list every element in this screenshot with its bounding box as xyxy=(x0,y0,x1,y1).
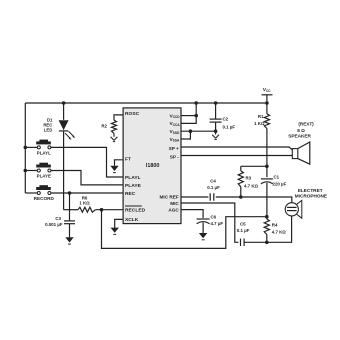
node A bias junction xyxy=(265,165,269,169)
svg-text:VCC: VCC xyxy=(263,87,272,93)
wire SP- xyxy=(181,155,292,157)
svg-text:C1: C1 xyxy=(274,174,280,179)
label pin VSSA xyxy=(170,137,180,143)
node junction RECLED line xyxy=(100,208,104,212)
label pin REC xyxy=(125,191,136,197)
label R2 xyxy=(101,124,107,129)
wire SP+ xyxy=(181,147,292,150)
svg-text:0.001 µF: 0.001 µF xyxy=(45,222,63,227)
speaker xyxy=(292,142,310,164)
node junction lineB xyxy=(265,215,269,219)
svg-text:4.7 KΩ: 4.7 KΩ xyxy=(244,184,258,189)
node junction VSS xyxy=(189,129,193,133)
LED light arrows xyxy=(65,131,75,139)
svg-text:C3: C3 xyxy=(55,216,61,221)
ground C3 xyxy=(65,237,73,244)
label pin MIC xyxy=(170,201,179,206)
svg-text:ELECTRET: ELECTRET xyxy=(298,188,323,193)
resistor R1 xyxy=(264,103,269,166)
wire MIC REF to mic xyxy=(216,197,292,203)
LED D1 xyxy=(59,120,69,131)
wire VCCA xyxy=(181,103,196,123)
label pin MIC REF xyxy=(160,195,179,200)
label pin PLAYL xyxy=(125,175,141,181)
wire LED column xyxy=(63,103,65,210)
svg-text:C6: C6 xyxy=(211,215,217,220)
wire MIC pin xyxy=(181,203,239,242)
ground VSS-C2 xyxy=(212,133,219,140)
node junction R3-micref xyxy=(239,195,243,199)
capacitor C1 xyxy=(261,166,273,216)
capacitor C4 xyxy=(210,193,214,201)
svg-text:SP +: SP + xyxy=(169,146,179,151)
svg-text:FT: FT xyxy=(125,157,131,163)
svg-text:4.7 KΩ: 4.7 KΩ xyxy=(272,230,286,235)
label R1 xyxy=(254,114,265,126)
svg-text:ROSC: ROSC xyxy=(125,111,140,117)
node junction rail-PLAYL xyxy=(24,146,28,150)
svg-text:XCLK: XCLK xyxy=(125,217,139,223)
label speaker xyxy=(288,122,314,139)
node junction REC-C3 xyxy=(68,191,72,195)
op-chip U1 I1800 body xyxy=(123,108,181,224)
wire XCLK xyxy=(115,219,123,227)
node junction rail-PLAYE xyxy=(24,169,28,173)
node junction VCCD xyxy=(194,114,198,118)
svg-text:220 µF: 220 µF xyxy=(273,181,287,186)
node junction VSS-C2 xyxy=(214,129,218,133)
svg-text:R3: R3 xyxy=(246,175,252,180)
svg-text:C5: C5 xyxy=(240,222,246,227)
label pin VCCD xyxy=(170,113,181,119)
svg-text:R2: R2 xyxy=(101,124,107,129)
wire FT xyxy=(115,160,124,166)
svg-text:PLAYL: PLAYL xyxy=(37,151,51,156)
resistor R2 xyxy=(112,120,117,133)
capacitor C6 xyxy=(197,219,210,233)
wire VCCD xyxy=(181,115,196,117)
capacitor C2 xyxy=(210,103,222,131)
label pin SP- xyxy=(170,154,179,159)
label R4 xyxy=(272,222,286,234)
label C3 xyxy=(45,216,63,227)
svg-text:PLAYL: PLAYL xyxy=(125,175,141,181)
label microphone xyxy=(295,188,327,199)
label pin XCLK xyxy=(125,217,139,223)
label pin VCCA xyxy=(170,121,181,127)
label pin VSSD xyxy=(170,129,180,135)
wire R6 to RECLED pin xyxy=(96,209,124,211)
svg-text:0.1 µF: 0.1 µF xyxy=(223,125,236,130)
switch PLAYE button xyxy=(25,163,51,179)
power Vcc terminal xyxy=(262,87,273,105)
wire left button rail xyxy=(24,103,26,193)
svg-text:(REXT): (REXT) xyxy=(298,122,314,127)
svg-text:R1: R1 xyxy=(258,114,264,119)
ground C6 xyxy=(199,233,207,240)
wire mic return xyxy=(244,216,292,242)
label C5 xyxy=(237,222,250,233)
svg-text:C2: C2 xyxy=(223,117,229,122)
resistor R4 xyxy=(264,217,269,243)
label C6 xyxy=(211,215,224,226)
label pin RECLED xyxy=(125,206,146,214)
electret microphone xyxy=(285,200,302,218)
wire RECLED to mic return (long) xyxy=(102,210,267,249)
svg-text:MIC: MIC xyxy=(170,201,179,206)
node junction rail-VCC xyxy=(194,101,198,105)
label pin AGC xyxy=(168,208,179,213)
svg-text:8 Ω: 8 Ω xyxy=(297,128,305,133)
capacitor C3 xyxy=(64,193,75,237)
svg-text:4.7 µF: 4.7 µF xyxy=(211,221,224,226)
label pin ROSC xyxy=(125,111,140,117)
node junction R4 bottom xyxy=(265,241,269,245)
svg-text:R4: R4 xyxy=(272,222,278,227)
label chip name I1800 xyxy=(146,163,160,169)
label C1 xyxy=(273,174,287,186)
ground R2 xyxy=(111,133,118,141)
svg-text:RECLED: RECLED xyxy=(125,208,146,214)
node junction rail-C2 xyxy=(214,101,218,105)
wire VSSA xyxy=(181,131,190,139)
capacitor C5 xyxy=(241,239,245,247)
label R6 xyxy=(79,195,90,205)
wire node A to R3 xyxy=(241,165,267,167)
svg-text:I1800: I1800 xyxy=(146,163,160,169)
svg-text:REC: REC xyxy=(125,191,136,197)
svg-text:PLAYE: PLAYE xyxy=(37,174,51,179)
ground FT xyxy=(110,166,118,173)
svg-text:LED: LED xyxy=(44,128,53,133)
wire PLAYE to chip xyxy=(51,171,123,185)
wire MIC REF xyxy=(181,196,208,198)
label D1 REC LED xyxy=(43,118,53,133)
svg-text:0.1 µF: 0.1 µF xyxy=(207,185,220,190)
svg-text:0.1 µF: 0.1 µF xyxy=(237,228,250,233)
switch RECORD button xyxy=(25,185,54,201)
svg-text:1 KΩ: 1 KΩ xyxy=(254,121,265,126)
wire ROSC xyxy=(114,115,123,120)
label C2 xyxy=(223,117,236,130)
svg-text:PLAYE: PLAYE xyxy=(125,183,142,189)
label R3 xyxy=(244,175,258,188)
node junction rail-LED xyxy=(62,101,66,105)
label pin SP+ xyxy=(169,146,179,151)
svg-text:SP -: SP - xyxy=(170,154,179,159)
svg-text:R6: R6 xyxy=(82,195,88,200)
wire REC to chip xyxy=(51,192,123,194)
label C4 xyxy=(207,179,220,190)
wire top Vcc rail xyxy=(25,102,267,104)
label pin FT xyxy=(125,157,131,163)
svg-text:AGC: AGC xyxy=(168,208,179,213)
resistor R3 xyxy=(238,166,243,197)
svg-text:MICROPHONE: MICROPHONE xyxy=(295,194,327,199)
wire VSSD xyxy=(181,130,216,132)
svg-text:1 KΩ: 1 KΩ xyxy=(79,201,90,206)
wire PLAYL to chip xyxy=(51,147,123,177)
switch PLAYL button xyxy=(25,140,51,156)
svg-text:RECORD: RECORD xyxy=(34,196,55,201)
ground XCLK xyxy=(111,228,119,235)
svg-text:SPEAKER: SPEAKER xyxy=(288,133,311,138)
wire LED to R6 xyxy=(64,209,78,211)
svg-text:C4: C4 xyxy=(210,179,216,184)
wire AGC xyxy=(181,210,203,218)
svg-text:MIC REF: MIC REF xyxy=(160,195,179,200)
label pin PLAYE xyxy=(125,183,142,189)
resistor R6 xyxy=(78,207,96,212)
